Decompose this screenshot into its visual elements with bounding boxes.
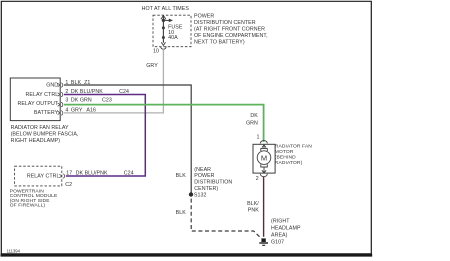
wire BLK Z1 row labels	[65, 80, 90, 86]
svg-text:RADIATOR FAN RELAY: RADIATOR FAN RELAY	[11, 125, 69, 131]
svg-text:NEXT TO BATTERY): NEXT TO BATTERY)	[194, 40, 245, 46]
svg-text:GRY: GRY	[146, 63, 158, 69]
svg-text:BATTERY: BATTERY	[34, 110, 59, 116]
motor M letter	[261, 153, 267, 162]
PCM pin 17 wire labels	[66, 171, 133, 177]
svg-text:C23: C23	[102, 98, 112, 104]
svg-text:GND: GND	[46, 83, 58, 89]
powertrain control module dashed box	[15, 166, 62, 186]
svg-text:RADIATOR FAN: RADIATOR FAN	[275, 144, 312, 150]
svg-text:17: 17	[66, 171, 72, 177]
svg-text:DK: DK	[250, 113, 258, 119]
svg-text:(BEHIND: (BEHIND	[275, 155, 296, 161]
svg-text:S132: S132	[194, 192, 207, 198]
wire BLK/PNK label	[247, 201, 259, 214]
wire DK GRN label	[246, 113, 258, 126]
svg-text:DK GRN: DK GRN	[71, 98, 92, 104]
svg-text:RELAY CTRL: RELAY CTRL	[26, 92, 59, 98]
wire DK BLU/PNK from relay to PCM	[64, 95, 145, 177]
svg-text:40A: 40A	[168, 35, 178, 41]
connector C2 label	[65, 182, 72, 188]
svg-text:CENTER): CENTER)	[194, 186, 218, 192]
svg-text:10: 10	[153, 48, 159, 54]
svg-text:(AT RIGHT FRONT CORNER: (AT RIGHT FRONT CORNER	[194, 27, 265, 33]
wire BLK from relay GND to S132	[64, 85, 191, 194]
svg-text:(NEAR: (NEAR	[194, 167, 211, 173]
ground location label	[271, 219, 301, 246]
svg-text:RELAY OUTPUT: RELAY OUTPUT	[17, 101, 58, 107]
wire GRY A16 row labels	[65, 108, 96, 114]
svg-text:HEADLAMP: HEADLAMP	[271, 226, 301, 232]
relay name label	[11, 125, 79, 144]
svg-text:POWER: POWER	[194, 173, 214, 179]
motor pin 1 label	[257, 135, 260, 141]
motor pin 2 label	[256, 176, 259, 182]
wire DK GRN C23 row labels	[65, 98, 111, 104]
svg-text:AREA): AREA)	[271, 232, 288, 238]
wire BLK dashed to ground	[191, 199, 261, 239]
splice S132	[189, 192, 207, 198]
label HOT AT ALL TIMES	[142, 6, 190, 12]
svg-text:2: 2	[256, 176, 259, 182]
wire DK GRN from relay to motor	[64, 105, 264, 142]
relay pin connectors	[58, 83, 63, 115]
wire BLK label upper	[176, 173, 187, 179]
svg-text:BLK: BLK	[176, 210, 187, 216]
motor pin 2 connector	[260, 174, 267, 177]
svg-text:A16: A16	[86, 108, 96, 114]
svg-text:GRY: GRY	[71, 108, 83, 114]
svg-text:GRN: GRN	[246, 120, 258, 126]
svg-text:HOT AT ALL TIMES: HOT AT ALL TIMES	[142, 6, 190, 12]
wire GRY from fuse to relay battery pin	[64, 48, 163, 113]
fuse value label	[168, 24, 183, 41]
svg-text:3: 3	[65, 98, 68, 104]
relay pin labels	[17, 83, 58, 116]
svg-text:POWER: POWER	[194, 14, 214, 20]
svg-text:C2: C2	[65, 182, 72, 188]
svg-text:DK BLU/PNK: DK BLU/PNK	[76, 171, 108, 177]
svg-text:PNK: PNK	[248, 208, 259, 214]
power distribution center dashed box	[153, 15, 191, 47]
svg-text:DISTRIBUTION: DISTRIBUTION	[194, 180, 232, 186]
svg-text:RELAY CTRL: RELAY CTRL	[27, 173, 60, 179]
svg-text:OF FIREWALL): OF FIREWALL)	[10, 203, 46, 209]
svg-text:RIGHT HEADLAMP): RIGHT HEADLAMP)	[11, 138, 61, 144]
motor name label	[275, 144, 312, 167]
wire BLK/PNK motor to ground	[263, 177, 265, 237]
svg-text:G107: G107	[271, 239, 284, 245]
ground G107	[259, 238, 268, 245]
svg-text:MOTOR: MOTOR	[275, 149, 294, 155]
document number	[7, 248, 21, 253]
svg-text:BLK/: BLK/	[247, 201, 259, 207]
PCM name label	[10, 188, 58, 208]
near power distribution center label	[194, 167, 232, 192]
svg-text:RADIATOR): RADIATOR)	[275, 160, 303, 166]
svg-text:OF ENGINE COMPARTMENT,: OF ENGINE COMPARTMENT,	[194, 33, 268, 39]
svg-text:1: 1	[257, 135, 260, 141]
radiator fan relay box	[10, 78, 60, 121]
svg-text:(RIGHT: (RIGHT	[271, 219, 290, 225]
wire BLK label lower	[176, 210, 187, 216]
svg-text:C24: C24	[124, 171, 134, 177]
radiator fan motor M box	[253, 144, 275, 173]
svg-text:M: M	[261, 153, 267, 162]
svg-text:(BELOW BUMPER FASCIA,: (BELOW BUMPER FASCIA,	[11, 132, 79, 138]
wire DK BLU/PNK C24 row labels	[65, 89, 129, 95]
wire GRY label	[146, 63, 158, 69]
svg-text:DISTRIBUTION CENTER: DISTRIBUTION CENTER	[194, 20, 256, 26]
motor internals	[257, 145, 271, 173]
PCM pin connector	[59, 174, 64, 179]
svg-text:4: 4	[65, 108, 68, 114]
power distribution center label	[194, 14, 268, 46]
motor pin 1 connector	[260, 141, 267, 144]
svg-text:111394: 111394	[7, 248, 21, 253]
fuse F 10 40A	[161, 16, 173, 50]
PCM relay ctrl pin label	[27, 173, 60, 179]
pin 10 label	[153, 48, 159, 54]
svg-text:BLK: BLK	[176, 173, 187, 179]
